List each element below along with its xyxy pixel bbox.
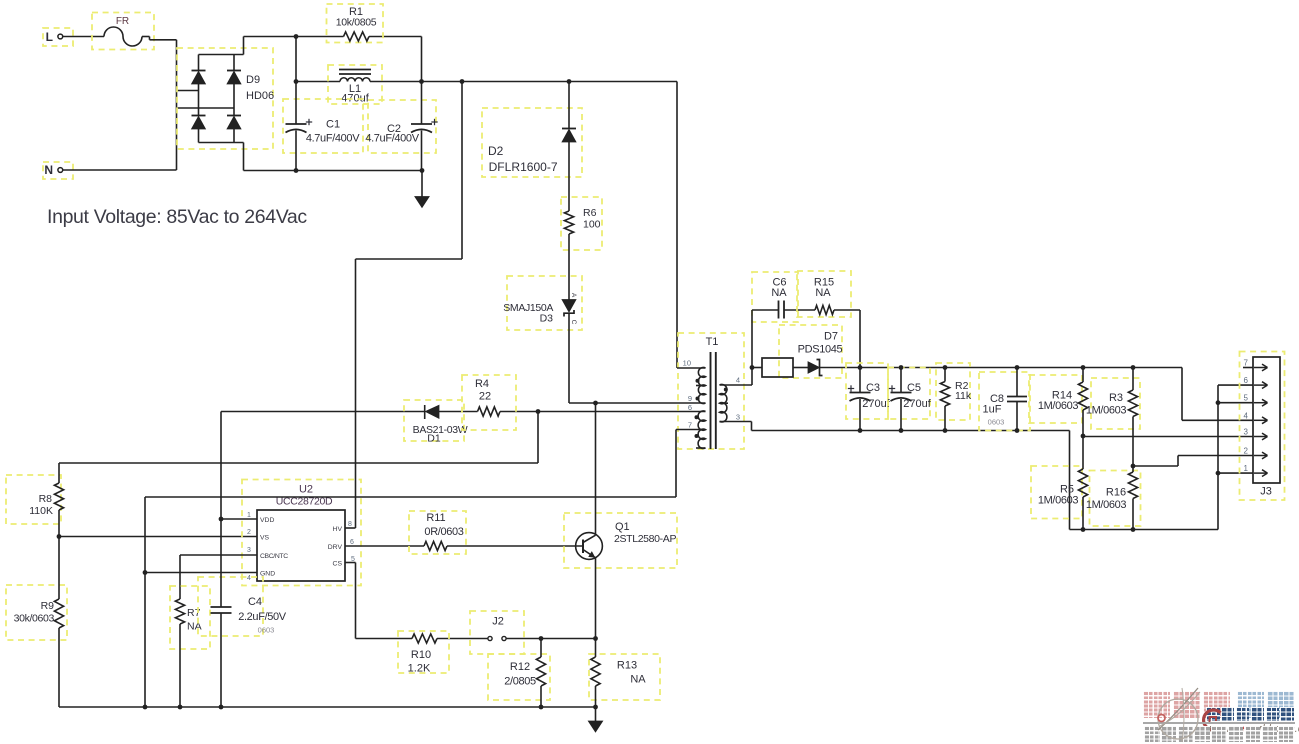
capacitor C6 NA <box>752 272 815 368</box>
wire GND pin4 <box>145 572 257 574</box>
wire T1 pin10 drop <box>676 82 678 369</box>
svg-text:30k/0603: 30k/0603 <box>14 613 55 625</box>
wire HV feed <box>356 82 463 529</box>
wire bottom rail <box>59 706 596 708</box>
svg-text:0603: 0603 <box>258 626 275 635</box>
svg-text:1M/0603: 1M/0603 <box>1038 495 1079 507</box>
svg-text:T1: T1 <box>706 336 719 348</box>
svg-text:R11: R11 <box>426 512 445 524</box>
node rail C4 <box>219 705 224 710</box>
svg-text:270uf: 270uf <box>862 398 890 410</box>
wire J2 to emitter <box>506 638 596 640</box>
wire J3 ground riser <box>1218 385 1253 529</box>
capacitor C1 4.7uF/400V <box>283 82 363 171</box>
svg-text:1.2K: 1.2K <box>408 663 431 675</box>
svg-text:J3: J3 <box>1260 486 1272 498</box>
svg-text:3: 3 <box>736 413 740 422</box>
capacitor C3 270uf <box>846 363 891 431</box>
svg-text:NA: NA <box>815 287 831 299</box>
svg-text:8: 8 <box>348 521 352 528</box>
svg-text:R9: R9 <box>41 600 55 612</box>
resistor R5 1M/0603 <box>1031 436 1088 530</box>
svg-text:3: 3 <box>1244 428 1249 437</box>
wire output return drop <box>1070 431 1219 530</box>
wire L tap <box>177 90 199 92</box>
resistor R13 NA <box>589 639 660 708</box>
svg-text:C4: C4 <box>248 596 262 608</box>
node output rail D7 <box>858 365 863 370</box>
wire L1 row <box>296 81 422 83</box>
svg-text:4: 4 <box>736 376 740 385</box>
svg-text:CBC/NTC: CBC/NTC <box>260 553 288 560</box>
svg-text:L: L <box>46 30 53 44</box>
svg-text:R16: R16 <box>1106 487 1126 499</box>
text input voltage note <box>47 206 307 228</box>
node VDD junction <box>219 517 224 522</box>
wire L to bridge <box>176 40 178 108</box>
svg-text:100: 100 <box>583 219 601 231</box>
svg-text:9: 9 <box>688 394 692 403</box>
wire VDD feed <box>220 412 222 520</box>
node pin1 junction <box>1216 471 1221 476</box>
resistor R15 NA <box>797 271 860 368</box>
resistor R1 10k/0805 <box>327 4 384 43</box>
svg-text:4.7uF/400V: 4.7uF/400V <box>365 133 419 145</box>
ground (control) <box>588 707 602 732</box>
svg-text:0R/0603: 0R/0603 <box>424 526 463 538</box>
svg-text:Q1: Q1 <box>615 521 630 533</box>
inductor L1 470uf <box>328 65 382 105</box>
svg-text:2STL2580-AP: 2STL2580-AP <box>614 533 676 545</box>
svg-text:1M/0603: 1M/0603 <box>1086 499 1127 511</box>
watermark eeworld blue characters <box>1206 707 1294 721</box>
wire Q1 collector <box>595 403 597 535</box>
node VS junction <box>57 534 62 539</box>
bridge rectifier D9 HD06 <box>177 37 274 171</box>
svg-text:C1: C1 <box>326 119 340 131</box>
resistor R9 30k/0603 <box>6 537 67 708</box>
svg-text:110K: 110K <box>29 505 53 517</box>
wire VS <box>59 536 257 538</box>
diode D1 BAS21-03W <box>404 400 468 445</box>
jumper J2 <box>470 611 524 654</box>
svg-text:D7: D7 <box>824 331 838 343</box>
node GND junction <box>143 570 148 575</box>
watermark sketch circle <box>1146 686 1216 744</box>
diode D2 DFLR1600-7 <box>482 82 582 212</box>
node L1 right <box>419 79 424 84</box>
node C8 top <box>1015 365 1020 370</box>
node C5 top <box>899 365 904 370</box>
connector J3 <box>1240 352 1285 501</box>
resistor R2 11k <box>936 363 972 431</box>
wire pin2 feed <box>1133 456 1253 467</box>
watermark title blue characters <box>1237 691 1294 718</box>
watermark url text <box>1206 723 1299 735</box>
svg-text:Input Voltage: 85Vac to 264Vac: Input Voltage: 85Vac to 264Vac <box>47 206 307 228</box>
svg-text:C5: C5 <box>907 382 921 394</box>
wire CBC pin3 <box>180 555 257 599</box>
node N (neutral input terminal) <box>43 162 177 179</box>
svg-text:NA: NA <box>630 674 646 686</box>
svg-text:R3: R3 <box>1109 392 1123 404</box>
svg-text:2.2uF/50V: 2.2uF/50V <box>238 611 287 623</box>
svg-text:C3: C3 <box>866 382 880 394</box>
svg-text:10k/0805: 10k/0805 <box>336 17 377 29</box>
svg-text:3: 3 <box>247 547 251 554</box>
svg-text:R10: R10 <box>411 649 431 661</box>
node L1 left <box>294 79 299 84</box>
wire output rail top <box>860 367 1182 369</box>
wire N to bridge <box>177 108 235 170</box>
resistor R7 NA <box>170 586 210 707</box>
svg-text:DRV: DRV <box>328 544 343 551</box>
wire CS stub <box>345 563 356 639</box>
wire pin6 row <box>221 411 706 413</box>
node L (line input terminal) <box>43 28 104 46</box>
svg-text:270uf: 270uf <box>903 398 931 410</box>
wire sense drop to R8 <box>59 412 538 464</box>
wire DRV <box>345 545 583 547</box>
wire pin5 feed <box>1218 402 1253 404</box>
resistor R14 1M/0603 <box>1029 368 1088 437</box>
node R2 bottom <box>943 428 948 433</box>
transistor Q1 2STL2580-AP <box>564 513 677 568</box>
wire pin1 feed <box>1218 472 1253 474</box>
svg-text:HV: HV <box>333 526 343 533</box>
wire R1 left drop <box>295 37 297 82</box>
wire pin3 feed <box>1083 436 1253 438</box>
node R16 bottom <box>1131 527 1136 532</box>
node D2 top <box>567 79 572 84</box>
svg-text:D3: D3 <box>540 313 554 325</box>
svg-text:R12: R12 <box>510 661 530 673</box>
node HV branch <box>460 79 465 84</box>
svg-text:4: 4 <box>247 575 251 582</box>
svg-text:D1: D1 <box>427 433 441 445</box>
svg-text:U2: U2 <box>299 484 313 496</box>
svg-text:4: 4 <box>1244 411 1249 420</box>
node R4 right <box>536 409 541 414</box>
svg-text:C: C <box>570 320 577 325</box>
svg-text:6: 6 <box>1244 376 1249 385</box>
wire pin7 return <box>145 430 676 708</box>
resistor R8 110K <box>6 463 64 537</box>
watermark title pink characters <box>1143 691 1230 718</box>
svg-text:A: A <box>570 293 577 298</box>
node R3 top <box>1131 365 1136 370</box>
wire pin4 riser <box>751 368 753 386</box>
capacitor C4 2.2uF/50V <box>198 519 287 707</box>
resistor R16 1M/0603 <box>1086 466 1141 530</box>
resistor R12 2/0805 <box>488 639 550 708</box>
node rail R7 <box>178 705 183 710</box>
svg-text:R6: R6 <box>583 207 597 219</box>
svg-text:7: 7 <box>1244 359 1249 368</box>
svg-text:4.7uF/400V: 4.7uF/400V <box>306 133 360 145</box>
watermark slogan gray characters <box>1144 726 1294 742</box>
transformer T1 <box>569 333 752 449</box>
diode D7 PDS1045 <box>752 325 860 378</box>
ground (primary) <box>415 171 429 208</box>
svg-text:1uF: 1uF <box>983 404 1002 416</box>
resistor R4 22 <box>462 375 516 430</box>
svg-text:VS: VS <box>260 534 270 541</box>
node R3 bottom <box>1131 464 1136 469</box>
svg-text:R4: R4 <box>475 378 489 390</box>
svg-text:2/0805: 2/0805 <box>504 676 536 688</box>
wire R1 right drop <box>421 37 423 82</box>
svg-text:2: 2 <box>1244 447 1249 456</box>
svg-text:VDD: VDD <box>260 517 274 524</box>
node C5 bottom <box>899 428 904 433</box>
node R12 top <box>539 636 544 641</box>
svg-text:5: 5 <box>1244 394 1249 403</box>
node C3 bottom <box>858 428 863 433</box>
wire pin4 feed <box>1182 368 1253 421</box>
svg-text:N: N <box>44 163 53 177</box>
capacitor C5 270uf <box>888 368 932 431</box>
svg-text:D9: D9 <box>246 74 260 86</box>
op-amp U2 UCC28720D controller <box>242 480 361 586</box>
watermark divider line <box>1143 722 1295 724</box>
wire VDD pin1 <box>221 518 257 520</box>
svg-text:DFLR1600-7: DFLR1600-7 <box>489 160 558 174</box>
wire top rail right <box>422 81 678 83</box>
node Q1 collector junction <box>593 401 598 406</box>
svg-text:PDS1045: PDS1045 <box>798 344 843 356</box>
wire DC+ top <box>244 36 422 38</box>
svg-text:7: 7 <box>688 421 692 430</box>
node rail R13 <box>593 705 598 710</box>
node R5 bottom <box>1081 527 1086 532</box>
node R2 top <box>943 365 948 370</box>
wire HV stub <box>345 527 356 529</box>
node C2 bottom ground junction <box>420 168 425 173</box>
node pin5 junction <box>1216 400 1221 405</box>
svg-text:NA: NA <box>771 287 787 299</box>
node rail R12 <box>539 705 544 710</box>
node C8 bottom <box>1015 428 1020 433</box>
watermark eeworld logo <box>1200 707 1228 735</box>
tvs diode D3 SMAJ150A <box>503 276 582 403</box>
svg-text:CS: CS <box>333 560 343 567</box>
svg-text:J2: J2 <box>492 616 504 628</box>
svg-text:0603: 0603 <box>988 418 1005 427</box>
node R14 bottom <box>1081 434 1086 439</box>
svg-text:10: 10 <box>683 359 691 368</box>
wire Q1 emitter <box>595 558 597 639</box>
svg-text:R13: R13 <box>617 660 637 672</box>
wire pin3 to rail <box>752 422 1070 431</box>
resistor R10 1.2K <box>398 631 449 675</box>
svg-text:1M/0603: 1M/0603 <box>1086 405 1127 417</box>
node emitter junction <box>593 636 598 641</box>
svg-text:1M/0603: 1M/0603 <box>1038 400 1079 412</box>
resistor R6 100 <box>561 197 602 300</box>
svg-text:6: 6 <box>350 539 354 546</box>
svg-text:470uf: 470uf <box>341 93 369 105</box>
svg-text:R8: R8 <box>39 493 53 505</box>
svg-text:1: 1 <box>1244 464 1249 473</box>
node secondary junction <box>750 365 755 370</box>
resistor R3 1M/0603 <box>1086 368 1140 467</box>
svg-text:6: 6 <box>688 403 692 412</box>
svg-text:D2: D2 <box>488 144 504 158</box>
node junction R1 left <box>294 34 299 39</box>
svg-text:1: 1 <box>247 512 251 519</box>
resistor R11 0R/0603 <box>409 511 466 554</box>
svg-text:NA: NA <box>187 621 202 633</box>
capacitor C2 4.7uF/400V <box>365 82 437 171</box>
node rail GND line <box>143 705 148 710</box>
svg-text:HD06: HD06 <box>246 90 274 102</box>
svg-text:FR: FR <box>116 16 129 27</box>
wire CS row <box>356 638 489 640</box>
fuse FR <box>92 13 177 50</box>
svg-text:11k: 11k <box>955 390 972 402</box>
svg-text:22: 22 <box>479 391 491 403</box>
node C1 bottom <box>294 168 299 173</box>
svg-text:2: 2 <box>247 529 251 536</box>
node R14 top <box>1081 365 1086 370</box>
capacitor C8 1uF <box>979 368 1030 431</box>
wire DC- bottom rail <box>244 170 423 172</box>
